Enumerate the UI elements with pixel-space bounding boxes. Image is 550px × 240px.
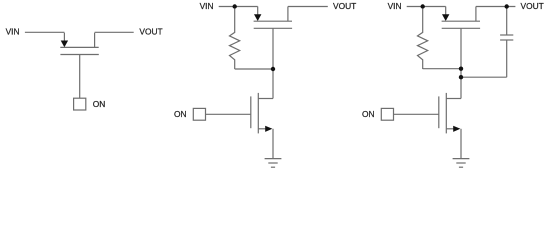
svg-text:ON: ON [362,109,375,119]
svg-text:VOUT: VOUT [521,1,544,11]
svg-text:ON: ON [174,109,187,119]
svg-text:ON: ON [93,99,106,109]
svg-text:VIN: VIN [200,1,214,11]
svg-text:VOUT: VOUT [139,27,162,37]
svg-text:VOUT: VOUT [333,1,356,11]
svg-text:VIN: VIN [388,1,402,11]
svg-text:VIN: VIN [6,27,20,37]
